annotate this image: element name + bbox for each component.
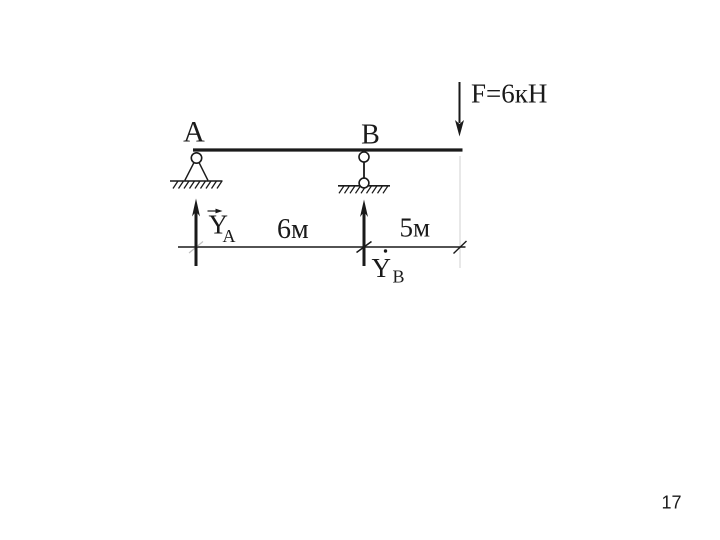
svg-text:F=6кН: F=6кН: [471, 79, 547, 109]
support B link: [363, 162, 365, 178]
reaction YA arrowhead: [192, 199, 200, 217]
support B hatching: [339, 186, 388, 194]
svg-text:Y: Y: [372, 253, 392, 283]
dimension tick at right end: [454, 241, 467, 254]
dimension tick at B: [357, 242, 372, 253]
support A ground line: [170, 180, 223, 182]
force F arrow shaft: [459, 82, 461, 123]
svg-text:B: B: [393, 267, 405, 287]
support A triangle right leg: [199, 163, 208, 181]
svg-text:5м: 5м: [400, 213, 431, 243]
reaction YB arrowhead: [360, 200, 368, 218]
support B roller top circle: [359, 152, 369, 162]
dimension tick at A (faint): [189, 242, 203, 254]
reaction YA arrow shaft: [195, 210, 198, 266]
support A hatching: [173, 181, 222, 189]
support B ground line: [338, 185, 390, 187]
svg-text:A: A: [183, 116, 205, 149]
force F arrowhead: [455, 120, 464, 137]
reaction YB arrow shaft: [363, 211, 366, 267]
dimension line: [178, 246, 466, 248]
beam: [193, 148, 463, 151]
support A triangle left leg: [185, 163, 194, 181]
support A pin circle: [191, 153, 201, 163]
vector arrow over YA: [208, 210, 218, 212]
dot over YB: [384, 249, 387, 252]
svg-text:B: B: [361, 120, 380, 151]
svg-text:17: 17: [662, 493, 682, 513]
support B roller bottom circle: [359, 178, 369, 188]
svg-text:6м: 6м: [277, 214, 309, 245]
svg-text:A: A: [223, 226, 236, 246]
extension line at right under force: [459, 156, 461, 268]
